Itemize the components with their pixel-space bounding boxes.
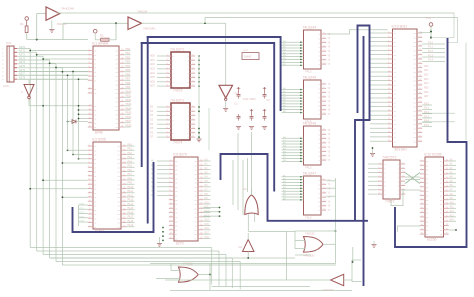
wire bottom right block [352, 260, 361, 282]
wire y23 to gate G2 [63, 22, 128, 24]
svg-text:C2: C2 [267, 98, 271, 102]
svg-text:P3.2: P3.2 [424, 111, 430, 114]
svg-text:AD4: AD4 [424, 82, 429, 85]
svg-text:QG1: QG1 [243, 50, 248, 52]
connector J1 [2, 41, 17, 88]
wire bundle IC5 right nets [203, 158, 210, 238]
bus line BL4 [141, 43, 143, 166]
svg-text:74HC04: 74HC04 [137, 10, 148, 14]
svg-text:74HC04N: 74HC04N [143, 27, 155, 31]
node J2 [115, 22, 117, 24]
bus line BL7 [268, 154, 368, 221]
capacitor C5 [264, 114, 266, 117]
wire IC12 bottom left net [398, 226, 420, 232]
IC IC5 [169, 153, 204, 246]
svg-text:AD0: AD0 [150, 55, 155, 58]
svg-text:PA13: PA13 [128, 199, 134, 202]
IC IC10 [387, 25, 422, 152]
svg-text:PB18: PB18 [126, 124, 133, 127]
wire bundle IC10 right nets top [422, 41, 445, 61]
svg-text:NET1: NET1 [19, 50, 26, 53]
svg-text:IC12 62256: IC12 62256 [424, 153, 442, 157]
svg-text:PA7: PA7 [128, 173, 133, 176]
wire IC3 dots vertical [198, 55, 200, 139]
svg-text:IC2 8255: IC2 8255 [92, 138, 106, 142]
svg-text:VCC: VCC [426, 17, 431, 20]
power tick C5 [264, 109, 266, 114]
wire bundle IC7 left nets [282, 88, 304, 113]
svg-text:P1.4: P1.4 [428, 59, 434, 62]
svg-text:PA12: PA12 [128, 194, 134, 197]
IC IC1 [88, 42, 125, 135]
svg-text:74LS247: 74LS247 [303, 172, 317, 176]
wire vertical x73 [72, 72, 74, 155]
wire IC12 right bottom stub [449, 229, 456, 231]
svg-text:PA4: PA4 [128, 160, 133, 163]
IC IC9 [303, 172, 327, 216]
svg-text:AD1: AD1 [424, 69, 429, 72]
bus line BL8 [355, 26, 370, 220]
OR gate G5 [295, 232, 336, 258]
svg-text:PA3: PA3 [128, 156, 133, 159]
wire bundle IC3 left nets [150, 55, 166, 88]
wire bundle mid verticals to gates [233, 132, 252, 215]
node G2 out [204, 22, 206, 24]
svg-text:CON: CON [3, 84, 9, 88]
wire bundle connector nets [18, 46, 89, 80]
svg-text:10uF 100N: 10uF 100N [243, 98, 256, 101]
capacitor C2 [264, 92, 266, 95]
svg-text:P3.0: P3.0 [424, 102, 430, 105]
svg-text:AD6: AD6 [150, 80, 155, 83]
wire from node J2 down [115, 23, 117, 40]
svg-text:74HC32: 74HC32 [305, 232, 315, 236]
bus line BL2 [142, 43, 275, 191]
wire bundle IC8 right labels [328, 130, 332, 162]
svg-text:P3.4: P3.4 [424, 120, 430, 123]
wire bundle IC5 left nets [151, 160, 169, 197]
wire G4 input long [248, 231, 295, 233]
wire IC10 right long net 2 [422, 121, 455, 123]
svg-text:PB15: PB15 [126, 112, 133, 115]
svg-text:P1.1: P1.1 [428, 46, 434, 49]
svg-text:P3.3: P3.3 [424, 115, 430, 118]
svg-text:G4: G4 [243, 187, 247, 191]
svg-text:AD2: AD2 [150, 63, 155, 66]
svg-text:PB2: PB2 [126, 56, 131, 59]
wire G7 out vertical [209, 264, 211, 291]
inverter G2 [128, 17, 142, 30]
wire R2 right [109, 39, 116, 41]
ground IC5 [159, 237, 161, 243]
wire osc bottom horizontal [27, 39, 88, 41]
wire G2 out [142, 22, 226, 24]
svg-text:PA16: PA16 [128, 211, 134, 214]
wire vertical x78.5 [78, 79, 80, 159]
wire long y105.7 [30, 105, 89, 107]
svg-text:AD3: AD3 [424, 78, 429, 81]
svg-text:AD7: AD7 [150, 85, 155, 88]
svg-text:8MHZ: 8MHZ [245, 56, 252, 59]
bus line BL1 [148, 37, 281, 110]
svg-text:AD5: AD5 [424, 86, 429, 89]
svg-text:A10: A10 [450, 201, 455, 204]
svg-text:AD1: AD1 [150, 59, 155, 62]
bus line BL9 [363, 37, 365, 285]
wire bundle IC10 left nets [370, 33, 387, 141]
svg-text:C1: C1 [234, 102, 238, 106]
svg-text:74HC32N: 74HC32N [303, 254, 315, 258]
wire bundle IC9 left nets [282, 175, 304, 200]
node G7 out [209, 274, 211, 276]
svg-text:PA6: PA6 [128, 169, 133, 172]
wire crossover X between IC11 and IC12 [405, 173, 420, 184]
svg-text:IC5 8279: IC5 8279 [173, 153, 187, 157]
svg-text:PA17: PA17 [128, 216, 134, 219]
wire IC9 right nets [326, 180, 335, 182]
wire bundle left vertical drops [30, 49, 62, 266]
svg-text:74HC573: 74HC573 [382, 156, 396, 160]
wire bundle IC2 right nets [126, 143, 134, 227]
svg-text:PB10: PB10 [126, 90, 133, 93]
IC IC4 [166, 99, 196, 145]
node J-osc [36, 39, 38, 41]
IC IC6 [303, 26, 327, 70]
svg-text:74LS: 74LS [305, 69, 312, 73]
ground G3 [223, 108, 228, 110]
OR gate G4 pointing up [243, 187, 258, 231]
bus line BL6 [221, 154, 268, 179]
node above ground IC11 [372, 147, 374, 149]
svg-text:74LS373: 74LS373 [170, 48, 184, 52]
svg-text:PA14: PA14 [128, 203, 134, 206]
inverter G9 pointing down [21, 80, 34, 99]
wire bundle IC2 left pin connections [62, 149, 88, 163]
svg-text:A12: A12 [450, 210, 455, 213]
svg-text:74374: 74374 [173, 141, 183, 145]
wire bundle IC2 left bottom nets [29, 179, 88, 226]
ground dots column [196, 138, 201, 140]
svg-text:74LS: 74LS [305, 165, 312, 169]
wire osc in [37, 13, 46, 15]
svg-text:K15: K15 [205, 223, 210, 226]
wire bundle IC1 left pin connections [29, 50, 87, 73]
wire P3 left [420, 32, 431, 34]
op-amp G1 oscillator buffer [46, 7, 60, 20]
svg-text:AD7: AD7 [424, 95, 429, 98]
inverter G3 [219, 23, 238, 108]
svg-text:K14: K14 [205, 219, 210, 222]
wire bundle IC9 right labels [328, 180, 332, 212]
svg-text:PB6: PB6 [126, 73, 131, 76]
wire bundle IC6 right labels [328, 34, 332, 66]
wire bottom long 3 [170, 290, 352, 292]
node P3a [430, 31, 432, 33]
IC IC11 [378, 156, 406, 204]
svg-text:AD0: AD0 [424, 65, 429, 68]
svg-text:IC10 8031: IC10 8031 [392, 25, 408, 29]
wire IC11 bottom loop [391, 190, 420, 206]
svg-text:P1.2: P1.2 [428, 50, 434, 53]
wire OR2 box top [295, 231, 336, 249]
svg-text:74573: 74573 [385, 200, 395, 204]
inverter G8 pointing left [318, 274, 352, 292]
wire bundle IC10 right nets mid [422, 102, 432, 127]
wire bundle IC5 right bottom dots [162, 207, 220, 242]
svg-text:8048: 8048 [95, 131, 103, 135]
svg-text:PB11: PB11 [126, 95, 132, 98]
svg-text:PB13: PB13 [126, 103, 133, 106]
OR gate G7 [156, 262, 210, 283]
svg-text:AD6: AD6 [424, 91, 429, 94]
svg-text:PA19: PA19 [128, 224, 134, 227]
svg-text:NET5: NET5 [19, 65, 26, 68]
wire bundle IC4 right dots [198, 106, 200, 138]
svg-text:PA9: PA9 [128, 182, 133, 185]
svg-text:62256: 62256 [427, 238, 437, 242]
power circle P1 [25, 17, 29, 21]
svg-text:74373: 74373 [173, 89, 183, 93]
svg-text:K17: K17 [205, 232, 210, 235]
wire bundle IC4 left nets [150, 106, 166, 139]
resistor R2 [95, 39, 101, 41]
wire mid vertical x286 [286, 232, 288, 281]
bus line BL10 [395, 39, 467, 247]
wire top right corner 2 [448, 18, 458, 43]
ground C4 [249, 126, 254, 128]
svg-text:74LS246: 74LS246 [303, 122, 317, 126]
svg-text:PB17: PB17 [126, 120, 133, 123]
IC IC2 [88, 138, 127, 234]
svg-text:A13: A13 [450, 214, 455, 217]
svg-text:NET3: NET3 [19, 57, 26, 60]
ground C5 [262, 126, 267, 128]
svg-text:74HC04N: 74HC04N [322, 288, 334, 292]
svg-text:NET2: NET2 [19, 54, 26, 57]
wire bundle IC1 left bottom cluster [78, 109, 88, 119]
svg-text:PB9: PB9 [126, 86, 131, 89]
wire y23 stub down [62, 23, 64, 39]
ground C3 [236, 126, 241, 128]
svg-text:8279: 8279 [176, 242, 184, 246]
wire R1 to net [26, 33, 28, 40]
wire bundle IC3 right dots [198, 55, 200, 87]
wire IC6 right net [326, 30, 387, 34]
wire osc vertical [36, 14, 38, 40]
wire G8 to box [352, 247, 354, 262]
bus line BL3 [147, 37, 149, 223]
svg-text:SV1: SV1 [6, 41, 12, 45]
svg-text:PA11: PA11 [128, 190, 134, 193]
svg-text:PB1: PB1 [126, 52, 131, 55]
resistor R1 [25, 26, 28, 33]
power tick C4 [251, 109, 253, 114]
svg-text:AD4: AD4 [150, 72, 155, 75]
svg-text:AD2: AD2 [424, 73, 429, 76]
svg-text:R1: R1 [20, 22, 24, 26]
svg-text:74LS373: 74LS373 [170, 99, 184, 103]
IC IC3 [166, 48, 196, 93]
svg-text:PB4: PB4 [126, 65, 131, 68]
wire top net CLK y13 [57, 12, 454, 14]
svg-text:R2: R2 [100, 34, 104, 38]
svg-text:PA0: PA0 [128, 143, 133, 146]
IC IC7 [303, 76, 327, 120]
wire IC10 right long net 1 [422, 112, 455, 114]
svg-text:PB7: PB7 [126, 78, 131, 81]
node IC12 right bottom [455, 229, 457, 231]
capacitor C1 [238, 92, 240, 95]
wire right edge vertical [465, 43, 467, 141]
svg-text:K18: K18 [205, 236, 210, 239]
svg-text:PA18: PA18 [128, 220, 134, 223]
wire bundle bottom-left staircase [30, 248, 336, 290]
svg-text:K16: K16 [205, 227, 210, 230]
svg-text:8031AH: 8031AH [395, 148, 408, 152]
wire bottom long 1 [150, 263, 336, 265]
svg-text:PA10: PA10 [128, 186, 134, 189]
svg-text:PA8: PA8 [128, 177, 133, 180]
power tick C1 [238, 87, 240, 92]
node OR2 box [335, 230, 337, 232]
svg-text:IC1 8048H: IC1 8048H [92, 42, 109, 46]
wire bundle IC7 right labels [328, 84, 332, 116]
bus line BL5 [73, 163, 154, 232]
capacitor C3 [238, 114, 240, 117]
svg-text:PA2: PA2 [128, 152, 133, 155]
svg-text:PA1: PA1 [128, 148, 133, 151]
svg-text:74HC04N: 74HC04N [61, 7, 74, 11]
svg-text:PB8: PB8 [126, 82, 131, 85]
svg-text:G: G [21, 91, 23, 94]
capacitor C4 [251, 114, 253, 117]
svg-text:P3.1: P3.1 [424, 107, 430, 110]
svg-text:A11: A11 [450, 206, 455, 209]
wire G9 output [28, 99, 30, 106]
node P3b [430, 37, 432, 39]
svg-text:NET0: NET0 [19, 46, 26, 49]
IC IC12 [420, 153, 449, 242]
diode D1 [67, 120, 88, 124]
wire bundle IC1 right nets [124, 48, 132, 128]
wire bundle IC12 right nets [449, 158, 456, 221]
svg-text:PA5: PA5 [128, 165, 133, 168]
svg-text:PB12: PB12 [126, 99, 133, 102]
svg-text:PB16: PB16 [126, 116, 133, 119]
svg-text:K10: K10 [205, 201, 210, 204]
ground osc [51, 20, 53, 29]
svg-text:74LS: 74LS [305, 215, 312, 219]
label box OSC [242, 53, 259, 60]
IC IC8 [303, 122, 327, 166]
wire bundle IC6 left nets [282, 41, 304, 66]
wire OR2 box vertical [335, 178, 337, 264]
svg-text:AD5: AD5 [150, 76, 155, 79]
svg-text:P3.5: P3.5 [424, 124, 430, 127]
wire faint x209 [208, 108, 210, 150]
power circle P2 [93, 29, 97, 33]
svg-text:A14: A14 [450, 219, 455, 222]
svg-text:PA15: PA15 [128, 207, 134, 210]
ground IC12 left [371, 244, 376, 246]
wire D1 drop [67, 75, 69, 150]
svg-text:PB3: PB3 [126, 61, 131, 64]
svg-text:PB14: PB14 [126, 107, 133, 110]
svg-text:NET4: NET4 [19, 61, 26, 64]
ground IC11 top [370, 153, 375, 155]
svg-text:P1.0: P1.0 [428, 41, 434, 44]
svg-text:PAD-0N: PAD-0N [57, 22, 66, 26]
wire top net y17.5 [205, 17, 458, 19]
wire bundle IC10 right labels [424, 65, 429, 98]
wire bundle IC8 left nets [282, 137, 304, 162]
svg-text:AD3: AD3 [150, 68, 155, 71]
svg-text:PB5: PB5 [126, 69, 131, 72]
svg-text:PB0: PB0 [126, 48, 131, 51]
svg-text:74LS245: 74LS245 [303, 76, 317, 80]
triangle G6 pointing up [239, 233, 255, 259]
wire bottom long 2 [165, 279, 318, 281]
wire bundle IC11 left nets [368, 164, 378, 194]
wire G2 out up [204, 18, 206, 24]
svg-text:74LS244: 74LS244 [303, 26, 317, 30]
power tick C2 [264, 87, 266, 92]
svg-text:P1.3: P1.3 [428, 54, 434, 57]
wire top right corner 1 [431, 13, 454, 38]
